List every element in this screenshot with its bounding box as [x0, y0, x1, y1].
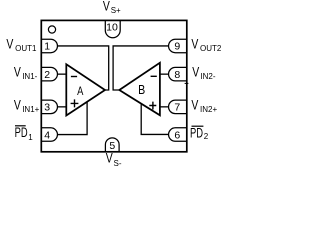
svg-text:OUT2: OUT2 — [200, 44, 222, 53]
pin 10 tab — [105, 20, 120, 37]
svg-text:6: 6 — [174, 129, 180, 141]
svg-text:V: V — [191, 36, 198, 52]
svg-text:V: V — [6, 36, 13, 52]
svg-text:10: 10 — [106, 21, 118, 33]
pin 4 tab — [41, 128, 57, 142]
pin 1 tab — [41, 39, 57, 53]
wire pin8 to op-amp B inverting input — [160, 73, 169, 75]
svg-text:PD: PD — [190, 127, 203, 141]
op-amp B non-inverting input marker — [149, 102, 156, 110]
svg-text:A: A — [77, 85, 84, 98]
svg-text:IN2+: IN2+ — [200, 105, 217, 114]
svg-text:3: 3 — [44, 102, 50, 114]
wire pin9 to op-amp B output — [113, 46, 169, 90]
pin 5 tab — [105, 138, 119, 152]
svg-text:IN2-: IN2- — [200, 72, 215, 81]
svg-text:OUT1: OUT1 — [15, 44, 37, 53]
label VS+ — [103, 0, 121, 15]
svg-text:9: 9 — [174, 41, 180, 53]
label VIN1- — [14, 64, 38, 81]
wire pin7 to op-amp B non-inverting input — [160, 106, 169, 108]
pin 9 tab — [169, 39, 187, 53]
label VS- — [106, 150, 122, 168]
op-amp B body — [119, 63, 160, 116]
wire pin1 to op-amp A output — [57, 46, 108, 90]
pin 2 tab — [41, 67, 57, 81]
pin 3 tab — [41, 100, 57, 114]
pin 6 tab — [169, 128, 187, 142]
label VIN1+ — [14, 97, 40, 114]
svg-text:IN1-: IN1- — [22, 72, 37, 81]
label PD2 — [190, 126, 209, 141]
svg-text:8: 8 — [174, 69, 180, 81]
svg-text:4: 4 — [44, 129, 50, 141]
wire pin3 to op-amp A non-inverting input — [57, 106, 66, 108]
svg-text:PD: PD — [15, 127, 28, 141]
svg-text:S-: S- — [114, 159, 122, 168]
op-amp A non-inverting input marker — [71, 99, 79, 107]
label VOUT1 — [6, 36, 37, 53]
label VOUT2 — [191, 36, 221, 53]
svg-text:V: V — [14, 97, 21, 113]
pin-1 indicator — [48, 26, 55, 33]
op-amp A inverting input marker — [71, 76, 77, 78]
svg-text:S+: S+ — [111, 6, 121, 15]
wire pin4 to op-amp A shutdown — [57, 102, 87, 135]
svg-text:V: V — [192, 64, 199, 80]
op-amp A body — [66, 64, 105, 115]
svg-text:V: V — [103, 0, 110, 14]
svg-text:2: 2 — [204, 132, 209, 141]
pin 7 tab — [169, 100, 187, 114]
svg-text:IN1+: IN1+ — [22, 105, 39, 114]
svg-text:V: V — [191, 97, 198, 113]
svg-text:1: 1 — [28, 133, 33, 142]
svg-text:2: 2 — [44, 69, 50, 81]
svg-text:B: B — [138, 83, 145, 97]
svg-text:1: 1 — [44, 41, 50, 53]
svg-text:V: V — [106, 150, 113, 166]
package outline U1 — [41, 20, 187, 151]
op-amp B inverting input marker — [151, 75, 157, 77]
svg-text:7: 7 — [174, 102, 180, 114]
wire pin2 to op-amp A inverting input — [57, 73, 66, 75]
pin 8 tab — [169, 67, 187, 81]
wire pin6 to op-amp B shutdown — [141, 103, 169, 134]
label PD1 — [15, 126, 34, 142]
label VIN2+ — [191, 97, 217, 114]
tick mark right edge — [185, 82, 189, 84]
label VIN2- — [192, 64, 216, 81]
svg-text:V: V — [14, 64, 21, 80]
